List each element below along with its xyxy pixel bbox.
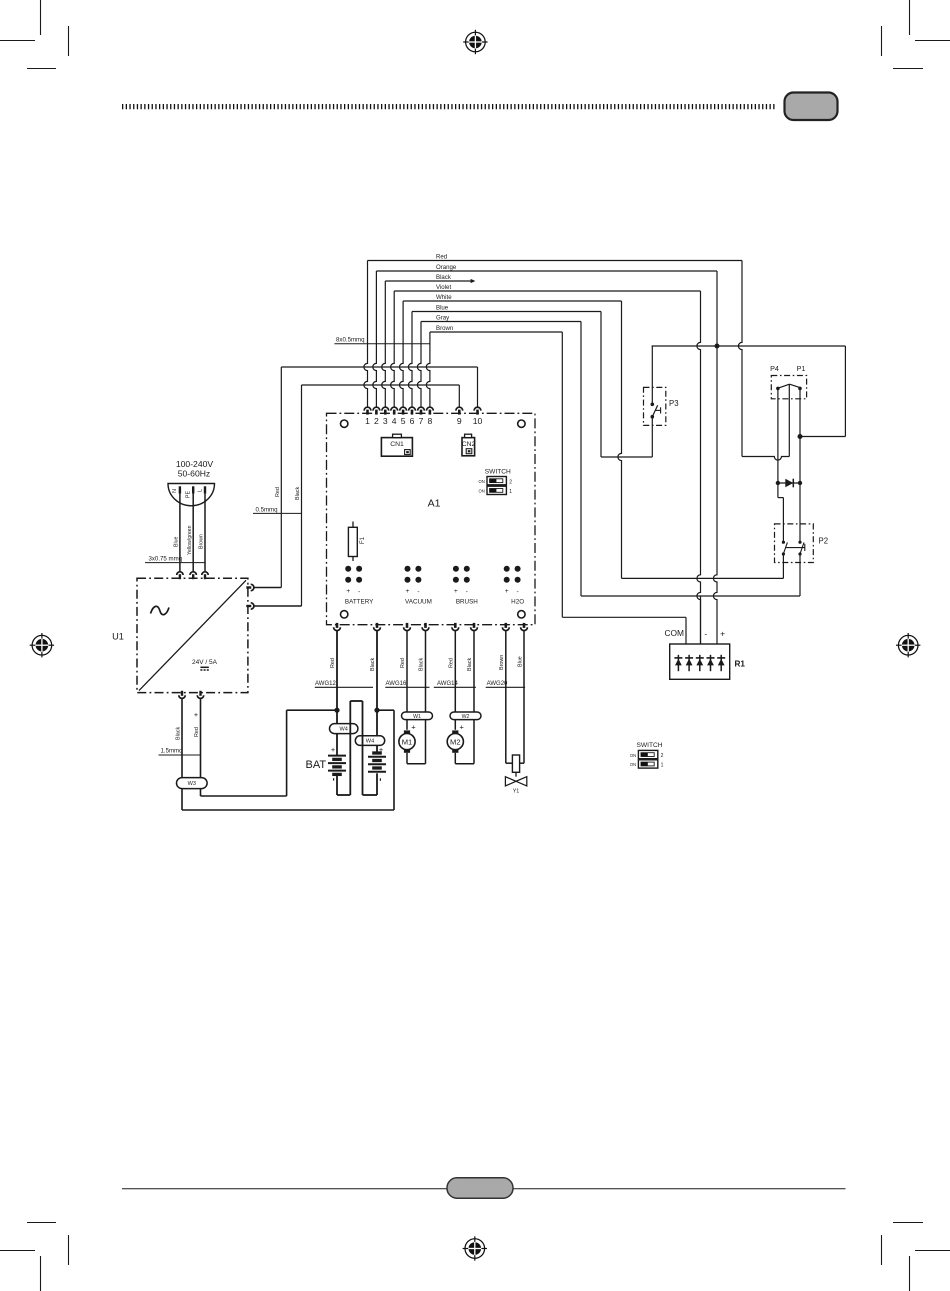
label wire Red vertical bbox=[275, 487, 281, 497]
svg-text:ON: ON bbox=[630, 762, 636, 767]
wire mains blue bbox=[174, 494, 180, 572]
psu U1 input terminals bbox=[177, 572, 209, 579]
wire black drop to terminal bbox=[382, 281, 386, 407]
wire brown horizontal COM bbox=[562, 616, 686, 618]
registration mark right bbox=[896, 633, 920, 657]
svg-text:Brown: Brown bbox=[199, 534, 205, 549]
wire red vertical to P4/P1 pole bbox=[738, 261, 742, 457]
svg-text:P2: P2 bbox=[819, 537, 829, 546]
wire mains brown bbox=[199, 494, 205, 572]
svg-text:Red: Red bbox=[400, 658, 406, 668]
board A1 top terminals bbox=[364, 407, 481, 414]
svg-text:+: + bbox=[720, 629, 725, 639]
label polarity + bbox=[194, 710, 198, 719]
svg-text:L: L bbox=[198, 489, 204, 492]
svg-text:7: 7 bbox=[419, 416, 424, 426]
svg-text:Red: Red bbox=[194, 727, 200, 737]
board A1 mounting holes bbox=[341, 420, 526, 618]
label wire colour Black bbox=[436, 274, 452, 281]
svg-text:1: 1 bbox=[509, 489, 512, 495]
wire violet R1 lead bbox=[700, 596, 702, 644]
wire P4 contact drop bbox=[777, 388, 779, 483]
registration mark bottom bbox=[463, 1236, 487, 1260]
svg-text:P1: P1 bbox=[797, 364, 806, 373]
svg-text:2: 2 bbox=[661, 753, 664, 759]
svg-text:SWITCH: SWITCH bbox=[636, 742, 662, 749]
label A1 bbox=[428, 498, 441, 510]
wire brush positive bbox=[454, 631, 456, 730]
svg-text:3x0.75 mmq: 3x0.75 mmq bbox=[149, 555, 183, 562]
svg-text:50-60Hz: 50-60Hz bbox=[178, 468, 210, 478]
wire M1 bottom lead bbox=[406, 753, 408, 764]
wire valve brown bbox=[506, 631, 513, 764]
svg-text:Black: Black bbox=[467, 658, 473, 671]
svg-text:10: 10 bbox=[473, 416, 483, 426]
label polarity + M1 bbox=[411, 723, 415, 732]
svg-text:VACUUM: VACUUM bbox=[405, 599, 432, 606]
svg-text:+: + bbox=[454, 588, 458, 595]
battery BAT 2 bbox=[368, 745, 386, 781]
board A1 bottom terminals bbox=[334, 623, 528, 631]
svg-text:2: 2 bbox=[509, 479, 512, 485]
svg-text:1.5mmq: 1.5mmq bbox=[161, 748, 183, 755]
wire COM drop to R1 bbox=[685, 617, 687, 644]
svg-text:+: + bbox=[411, 723, 415, 732]
wire orange vertical to R1 + bbox=[713, 271, 717, 644]
indicator block R1 bbox=[670, 644, 746, 679]
wire gray vertical bbox=[580, 322, 582, 597]
svg-text:Red: Red bbox=[436, 254, 447, 261]
svg-text:Red: Red bbox=[275, 487, 281, 497]
label polarity + M2 bbox=[460, 723, 464, 732]
label U1 bbox=[112, 632, 124, 642]
float switch P2 bbox=[775, 524, 829, 563]
wire psu minus run bbox=[182, 710, 394, 810]
svg-text:ON: ON bbox=[630, 753, 636, 758]
svg-text:Black: Black bbox=[370, 658, 376, 671]
label P1 bbox=[797, 364, 806, 373]
svg-text:2: 2 bbox=[374, 416, 379, 426]
label wire Black vertical bbox=[295, 487, 301, 500]
pressure switch P3 bbox=[644, 387, 679, 425]
svg-text:Black: Black bbox=[436, 274, 452, 281]
crop mark bottom-right bbox=[882, 1223, 950, 1291]
svg-text:8x0.5mmq: 8x0.5mmq bbox=[336, 337, 364, 344]
svg-text:+: + bbox=[379, 745, 383, 754]
svg-text:+: + bbox=[460, 723, 464, 732]
svg-text:0.5mmq: 0.5mmq bbox=[256, 506, 278, 513]
mains plug bbox=[168, 484, 215, 506]
wire battery positive from board bbox=[336, 631, 338, 756]
wire mains yellow/green bbox=[187, 494, 193, 572]
registration mark left bbox=[30, 633, 54, 657]
svg-text:Orange: Orange bbox=[436, 264, 457, 271]
wire P4/P1 pole stem bbox=[788, 385, 790, 457]
svg-text:Black: Black bbox=[295, 487, 301, 500]
valve solenoid Y1 bbox=[505, 755, 526, 795]
label wire colour Blue bbox=[436, 305, 449, 312]
wire white horizontal to P2 bbox=[622, 577, 784, 579]
cable marker W4 first bbox=[330, 724, 358, 734]
terminal block R1 COM - + bbox=[664, 628, 725, 639]
wire violet horizontal run bbox=[394, 290, 700, 292]
svg-text:Violet: Violet bbox=[436, 284, 451, 291]
svg-text:H2O: H2O bbox=[511, 599, 524, 606]
board connector BATTERY pads bbox=[345, 566, 374, 606]
wire P3 top lead bbox=[651, 346, 653, 404]
wire red feed to pole bbox=[742, 457, 789, 461]
svg-text:N: N bbox=[172, 489, 178, 493]
wire M2 bottom lead bbox=[454, 753, 456, 764]
label 24V / 5A bbox=[192, 659, 218, 670]
cable marker W1 bbox=[402, 712, 433, 720]
wire orange drop to terminal bbox=[373, 271, 377, 407]
board connector BRUSH pads bbox=[453, 566, 478, 606]
wire brown drop to terminal bbox=[426, 332, 430, 407]
label wire colour Violet bbox=[436, 284, 451, 291]
label wire colour White bbox=[436, 294, 452, 301]
psu U1 output terminals bottom bbox=[179, 691, 204, 699]
svg-text:24V / 5A: 24V / 5A bbox=[192, 659, 218, 666]
wire brown vertical bbox=[561, 332, 563, 617]
svg-text:+: + bbox=[505, 588, 509, 595]
svg-text:-: - bbox=[358, 588, 360, 595]
power supply U1 outline bbox=[137, 578, 248, 692]
svg-text:-: - bbox=[466, 588, 468, 595]
label wire Black battery bbox=[370, 658, 376, 671]
svg-text:Blue: Blue bbox=[436, 305, 449, 312]
svg-text:W2: W2 bbox=[462, 714, 470, 720]
wire psu red output bbox=[254, 367, 281, 588]
pin numbers 1-10 bbox=[365, 416, 482, 426]
svg-text:Red: Red bbox=[449, 658, 455, 668]
wire gray horizontal run bbox=[421, 321, 581, 323]
svg-text:+: + bbox=[194, 710, 198, 719]
svg-text:BAT: BAT bbox=[306, 759, 327, 771]
svg-text:P4: P4 bbox=[770, 364, 779, 373]
wire white drop to terminal bbox=[400, 301, 404, 407]
wire red horizontal run bbox=[368, 260, 743, 262]
svg-text:W3: W3 bbox=[188, 781, 196, 787]
wire red drop to terminal bbox=[364, 261, 368, 407]
label cable AWG12 bbox=[315, 681, 373, 688]
svg-text:BRUSH: BRUSH bbox=[456, 599, 478, 606]
dip switch board bank bbox=[479, 477, 513, 496]
svg-text:-: - bbox=[516, 588, 518, 595]
crop mark top-left bbox=[0, 0, 69, 69]
junction orange / P1 net bbox=[715, 344, 720, 349]
crop mark top-right bbox=[882, 0, 950, 69]
svg-text:Blue: Blue bbox=[174, 537, 180, 547]
svg-text:Blue: Blue bbox=[517, 656, 523, 667]
svg-text:COM: COM bbox=[664, 628, 684, 638]
label cable AWG20 bbox=[486, 681, 525, 688]
label wire Brown valve bbox=[499, 655, 505, 670]
svg-text:1: 1 bbox=[365, 416, 370, 426]
wire valve blue bbox=[520, 631, 524, 764]
header page tab bbox=[785, 93, 838, 121]
wire vacuum negative bbox=[407, 631, 426, 764]
svg-text:AWG20: AWG20 bbox=[487, 681, 508, 687]
fuse F1 bbox=[348, 522, 366, 562]
label cable 3x0.75 mmq bbox=[145, 555, 206, 562]
label wire Red vacuum bbox=[400, 658, 406, 668]
psu U1 output terminals right bbox=[246, 584, 254, 609]
svg-text:Black: Black bbox=[419, 658, 425, 671]
cable marker W4 second bbox=[355, 736, 384, 746]
wire battery negative from board bbox=[376, 631, 378, 754]
label SWITCH remote bbox=[636, 742, 662, 749]
wire psu minus black bbox=[181, 699, 183, 811]
svg-text:6: 6 bbox=[410, 416, 415, 426]
footer rule bbox=[122, 1188, 846, 1190]
wire gray horizontal to P2 bbox=[581, 595, 800, 597]
svg-text:BATTERY: BATTERY bbox=[345, 599, 374, 606]
board connector H2O pads bbox=[504, 566, 525, 606]
wire psu black to terminal 9 bbox=[302, 385, 460, 407]
wire blue drop to terminal bbox=[408, 312, 412, 407]
svg-text:Black: Black bbox=[176, 727, 182, 740]
wire blue horizontal to P3 bbox=[601, 456, 652, 458]
wire psu black output bbox=[254, 385, 302, 606]
header dotted rule bbox=[122, 104, 776, 109]
label wire Black bbox=[176, 727, 182, 740]
svg-text:-: - bbox=[704, 629, 707, 639]
wire white vertical bbox=[618, 301, 622, 578]
label wire Red brush bbox=[449, 658, 455, 668]
svg-text:5: 5 bbox=[401, 416, 406, 426]
svg-text:ON: ON bbox=[479, 479, 485, 484]
svg-text:CN1: CN1 bbox=[390, 441, 404, 448]
registration mark top bbox=[463, 30, 487, 54]
wire psu plus red bbox=[200, 699, 202, 797]
label cable 8x0.5mmq bbox=[334, 337, 430, 344]
svg-text:AWG12: AWG12 bbox=[315, 681, 336, 687]
label cable 1.5mmq bbox=[159, 748, 201, 755]
svg-text:4: 4 bbox=[392, 416, 397, 426]
wire P2 right bottom lead bbox=[799, 554, 801, 596]
junction battery positive bbox=[334, 708, 339, 713]
label cable AWG14 bbox=[434, 681, 476, 688]
motor M2 bbox=[447, 730, 463, 752]
label P4 bbox=[770, 364, 779, 373]
board connector VACUUM pads bbox=[405, 566, 432, 606]
svg-text:1: 1 bbox=[661, 763, 664, 769]
svg-text:F1: F1 bbox=[360, 536, 366, 544]
svg-text:+: + bbox=[406, 588, 410, 595]
label BAT bbox=[306, 759, 327, 771]
svg-text:+: + bbox=[331, 745, 335, 754]
label wire colour Orange bbox=[436, 264, 457, 271]
cable marker W3 bbox=[177, 778, 208, 789]
wire blue vertical bbox=[600, 312, 602, 458]
cable marker W2 bbox=[450, 712, 481, 720]
label wire colour Red bbox=[436, 254, 447, 261]
svg-text:8: 8 bbox=[428, 416, 433, 426]
footer page tab bbox=[447, 1178, 513, 1198]
wire white horizontal run bbox=[403, 300, 621, 302]
connector CN2 bbox=[462, 434, 476, 456]
wire P1 loop right edge bbox=[800, 346, 845, 437]
svg-text:AWG16: AWG16 bbox=[386, 681, 407, 687]
svg-text:Red: Red bbox=[330, 658, 336, 668]
svg-text:3: 3 bbox=[383, 416, 388, 426]
wire violet vertical to R1 - bbox=[697, 291, 701, 644]
svg-text:Yellow/green: Yellow/green bbox=[187, 525, 193, 555]
label wire Red battery bbox=[330, 658, 336, 668]
diode D1 bbox=[776, 479, 803, 488]
wire violet drop to terminal bbox=[391, 291, 395, 407]
junction battery negative bbox=[374, 708, 379, 713]
svg-text:W4: W4 bbox=[366, 739, 374, 745]
svg-text:PE: PE bbox=[185, 491, 191, 499]
label cable AWG16 bbox=[385, 681, 429, 688]
svg-text:M1: M1 bbox=[402, 738, 413, 747]
svg-text:R1: R1 bbox=[735, 660, 746, 669]
label SWITCH board bbox=[485, 469, 511, 476]
svg-text:W1: W1 bbox=[413, 714, 421, 720]
wire vacuum positive bbox=[406, 631, 408, 730]
label wire Red bbox=[194, 727, 200, 737]
svg-text:ON: ON bbox=[479, 489, 485, 494]
wire brown horizontal run bbox=[430, 331, 562, 333]
wire P3 bottom lead bbox=[651, 417, 653, 457]
wire brush negative bbox=[455, 631, 474, 764]
wire P1 contact drop bbox=[799, 388, 801, 483]
svg-text:CN2: CN2 bbox=[462, 441, 476, 448]
wire psu red to terminal 10 bbox=[281, 367, 477, 407]
label wire colour Brown bbox=[436, 325, 453, 332]
svg-text:P3: P3 bbox=[669, 399, 679, 408]
svg-text:+: + bbox=[346, 588, 350, 595]
selector switch P4/P1 bbox=[771, 376, 806, 399]
svg-text:White: White bbox=[436, 294, 452, 301]
wire diode to P2 jog bbox=[778, 483, 784, 542]
label 100-240V 50-60Hz bbox=[176, 459, 214, 478]
crop mark bottom-left bbox=[0, 1223, 69, 1291]
wire psu plus run bbox=[201, 710, 338, 796]
label wire Blue valve bbox=[517, 656, 523, 667]
dip switch remote bank bbox=[630, 750, 664, 768]
svg-text:Y1: Y1 bbox=[513, 789, 520, 795]
label wire Black vacuum bbox=[419, 658, 425, 671]
svg-text:W4: W4 bbox=[340, 727, 348, 733]
wire P2 left bottom lead bbox=[782, 554, 784, 578]
svg-text:Brown: Brown bbox=[436, 325, 453, 332]
wire blue horizontal run bbox=[412, 311, 601, 313]
wire gray drop to terminal bbox=[417, 322, 421, 407]
svg-text:U1: U1 bbox=[112, 632, 124, 642]
motor M1 bbox=[399, 730, 415, 752]
symbol AC bbox=[151, 606, 170, 614]
svg-text:M2: M2 bbox=[450, 738, 461, 747]
connector CN1 bbox=[381, 434, 412, 456]
svg-text:-: - bbox=[417, 588, 419, 595]
svg-text:Gray: Gray bbox=[436, 315, 450, 322]
junction P1 contact net bbox=[798, 434, 803, 439]
label wire Black brush bbox=[467, 658, 473, 671]
controller board A1 outline bbox=[327, 413, 536, 624]
svg-text:SWITCH: SWITCH bbox=[485, 469, 511, 476]
wire P3 top to P1 loop bbox=[652, 345, 846, 347]
wire P1 net through to P2 bbox=[799, 483, 801, 542]
battery BAT 1 bbox=[328, 745, 346, 780]
wire battery series link bbox=[337, 701, 377, 795]
wire black (signal, terminated with arrow) bbox=[385, 279, 475, 283]
label cable 0.5mmq bbox=[253, 506, 302, 513]
wire orange horizontal run bbox=[376, 270, 717, 272]
svg-text:9: 9 bbox=[457, 416, 462, 426]
svg-text:Brown: Brown bbox=[499, 655, 505, 670]
svg-text:A1: A1 bbox=[428, 498, 441, 510]
label wire colour Gray bbox=[436, 315, 450, 322]
